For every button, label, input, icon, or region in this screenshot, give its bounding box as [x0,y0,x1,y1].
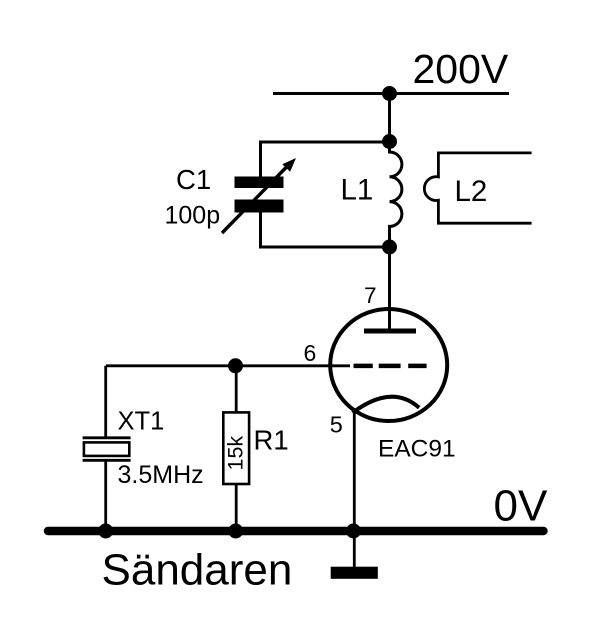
svg-text:L2: L2 [455,175,488,208]
svg-text:100p: 100p [165,202,221,230]
svg-text:7: 7 [364,283,377,308]
svg-text:3.5MHz: 3.5MHz [118,461,204,489]
svg-text:R1: R1 [254,425,289,456]
svg-text:0V: 0V [494,482,548,531]
svg-text:C1: C1 [176,164,211,195]
svg-text:200V: 200V [413,46,509,92]
svg-text:XT1: XT1 [118,407,165,435]
svg-text:EAC91: EAC91 [378,436,456,463]
svg-text:5: 5 [330,412,343,438]
svg-text:15k: 15k [224,436,248,471]
svg-text:6: 6 [304,340,317,366]
svg-text:Sändaren: Sändaren [102,546,293,595]
svg-text:L1: L1 [341,174,374,207]
